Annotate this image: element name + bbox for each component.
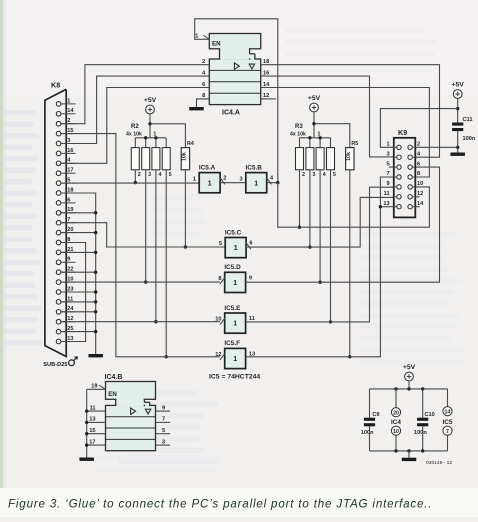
- svg-text:12: 12: [417, 191, 423, 197]
- svg-text:11: 11: [384, 191, 390, 197]
- svg-text:9: 9: [386, 181, 389, 187]
- wire K8 pin row 15 to ground bus: [61, 251, 96, 253]
- svg-text:1: 1: [233, 280, 237, 287]
- IC4.B output pin 3 stub: [156, 444, 171, 446]
- svg-text:5: 5: [162, 428, 165, 434]
- IC4.A pin 12 stub (n.c.): [261, 98, 276, 100]
- svg-text:13: 13: [383, 201, 389, 207]
- wire K9 pin 2 to +5V rail: [415, 146, 457, 148]
- IC4.B EN pin 19 grounded: [87, 388, 106, 390]
- wire K8.2 to IC4.A pin 2: [61, 65, 209, 124]
- K9 pin 12 stub: [415, 196, 420, 198]
- line C in: K8.7 jog to IC5.C input, R4 pullup: [61, 223, 225, 247]
- wire K8 pin row 13 to ground bus: [61, 232, 96, 234]
- resistor network R2 4x 10k: [126, 124, 172, 178]
- svg-text:10: 10: [215, 317, 221, 323]
- wire IC4.A pin 16 to K9 pin 3: [261, 76, 394, 157]
- wire +5V to R5 top: [314, 124, 350, 148]
- wire K8 pin row 21 to ground bus: [61, 311, 96, 313]
- R3.4 pulls line D out: [319, 170, 321, 282]
- svg-text:R4: R4: [187, 141, 194, 147]
- svg-text:14: 14: [445, 409, 451, 415]
- svg-text:16: 16: [263, 70, 269, 76]
- svg-text:3: 3: [148, 172, 151, 178]
- svg-text:15: 15: [89, 428, 95, 434]
- svg-text:1: 1: [233, 356, 237, 363]
- svg-text:SUB-D25: SUB-D25: [43, 362, 67, 368]
- R3.3 pulls line C out: [309, 170, 311, 247]
- svg-text:14: 14: [417, 201, 424, 207]
- svg-text:9: 9: [162, 405, 165, 411]
- svg-text:3: 3: [386, 151, 389, 157]
- svg-text:18: 18: [263, 59, 269, 65]
- svg-text:3: 3: [162, 439, 165, 445]
- buffer IC5.D: [218, 264, 252, 292]
- svg-text:7: 7: [162, 417, 165, 423]
- svg-text:5: 5: [333, 172, 336, 178]
- svg-text:K8: K8: [51, 81, 60, 90]
- svg-text:7: 7: [386, 171, 389, 177]
- node +5V rail to K9.1 branch: [456, 107, 459, 110]
- line D in: K8.10 to IC5.D input, R2.3 pullup: [61, 281, 220, 283]
- svg-text:13: 13: [89, 417, 95, 423]
- IC4.B input ground rail: [86, 389, 88, 457]
- svg-text:IC5.D: IC5.D: [224, 264, 241, 271]
- wire K8 pin row 17 to ground bus: [61, 271, 96, 273]
- svg-text:11: 11: [249, 316, 255, 322]
- svg-text:6: 6: [249, 241, 252, 247]
- EN net: down from IC5.B.4 junction, R3.2 pullup, to K9 pin 10: [278, 183, 430, 228]
- wire IC5.A out to IC5.B in: [220, 182, 246, 184]
- K9 pin 5 stub: [389, 166, 394, 168]
- wire IC4.A pin 14 to K9 pin 8: [261, 88, 430, 178]
- svg-text:7: 7: [446, 429, 449, 435]
- svg-text:R2: R2: [131, 124, 139, 130]
- svg-text:1: 1: [193, 176, 196, 182]
- svg-text:C10: C10: [425, 412, 435, 418]
- svg-text:K9: K9: [398, 128, 407, 137]
- wire K8.4 to IC4.A pin 6: [61, 88, 209, 164]
- wire K8.3 to IC4.A pin 4: [61, 76, 209, 143]
- R5 pulls line F out: [349, 170, 351, 357]
- wire K8 pin row 11 to ground bus: [61, 212, 96, 214]
- connector K8 (SUB-D25 male, PC parallel port): [43, 81, 78, 369]
- svg-text:1: 1: [254, 180, 258, 187]
- buffer IC5.C: [219, 229, 253, 257]
- svg-text:2: 2: [202, 59, 205, 65]
- resistor network R3 4x 10k: [290, 124, 336, 178]
- ground at decoupling block: [402, 458, 417, 461]
- wire K8 pin row 23 to ground bus: [61, 331, 96, 333]
- ground at K8 bus: [88, 354, 103, 357]
- svg-text:17: 17: [67, 168, 73, 174]
- IC4.A pin 1 EN loop wire from IC5.B output: [195, 19, 278, 183]
- IC5.B output node to EN loop: [267, 182, 278, 184]
- svg-text:IC5.F: IC5.F: [224, 340, 240, 347]
- svg-text:1: 1: [233, 321, 237, 328]
- svg-text:1: 1: [234, 245, 238, 252]
- capacitor C9 100n: [361, 389, 380, 451]
- R3.5 pulls line E out: [330, 170, 332, 322]
- svg-text:5: 5: [219, 241, 222, 247]
- resistor R5 10k: [346, 141, 359, 170]
- svg-text:6: 6: [67, 197, 70, 203]
- svg-text:Figure 3. ‘Glue’ to connect th: Figure 3. ‘Glue’ to connect the PC’s par…: [8, 498, 432, 511]
- buffer IC5.E: [215, 305, 255, 333]
- wire K8 pin row 19 to ground bus: [61, 291, 96, 293]
- wire +5V to R4 top: [150, 124, 185, 148]
- svg-text:5: 5: [169, 172, 172, 178]
- svg-text:100n: 100n: [361, 430, 374, 436]
- line A: K8.5 to IC5.A input, R2.2 pullup: [61, 182, 199, 184]
- IC4.A pin 8 to ground: [197, 99, 210, 107]
- wire +5V to K9 pin 1: [380, 109, 457, 148]
- svg-text:10k: 10k: [346, 152, 352, 161]
- R2.4 pulls line E: [155, 170, 157, 322]
- svg-text:11: 11: [90, 405, 96, 411]
- resistor R4 10k: [181, 141, 194, 170]
- svg-text:+5V: +5V: [452, 82, 465, 89]
- IC5 power pins 14 and 7: [443, 389, 453, 451]
- svg-text:020148 - 12: 020148 - 12: [426, 460, 452, 466]
- svg-text:IC5.B: IC5.B: [246, 164, 263, 171]
- wire K8 pin row 20 to ground bus: [61, 301, 96, 303]
- svg-text:8: 8: [218, 276, 221, 282]
- buffer IC4.B (74HCT244 half, disabled): [105, 374, 156, 451]
- ground below C11: [450, 153, 465, 156]
- svg-text:4x 10k: 4x 10k: [126, 131, 142, 137]
- wire IC4.A pin 18 to K9 pin 4: [261, 65, 440, 158]
- svg-text:+5V: +5V: [308, 95, 321, 102]
- svg-text:16: 16: [67, 148, 73, 154]
- svg-text:8: 8: [202, 93, 205, 99]
- svg-text:IC5.A: IC5.A: [199, 164, 216, 171]
- buffer IC5.B: [239, 164, 274, 192]
- svg-text:14: 14: [67, 108, 74, 114]
- R4 pulls line C: [184, 170, 186, 247]
- node: +5V / R3 / R5 junction: [312, 122, 315, 125]
- buffer IC5.A: [193, 164, 227, 192]
- R2.2 pulls line A: [134, 170, 136, 183]
- connector K9 (JTAG 14-pin header): [383, 128, 424, 217]
- svg-text:6: 6: [202, 82, 205, 88]
- svg-text:IC5.C: IC5.C: [225, 229, 242, 236]
- capacitor C11 100n: [452, 117, 476, 142]
- line D out: IC5.D.9 to K9 pin 6, R3.4 pullup: [246, 167, 440, 282]
- node C11 / K9.2: [456, 146, 459, 149]
- svg-text:9: 9: [67, 257, 70, 263]
- IC4.B input pin 11: [87, 410, 106, 412]
- svg-text:4x 10k: 4x 10k: [290, 131, 306, 137]
- svg-text:+5V: +5V: [144, 97, 157, 104]
- svg-text:IC5.E: IC5.E: [224, 305, 241, 312]
- K9 pin 13 taps F net: [380, 206, 393, 208]
- svg-text:R5: R5: [351, 141, 358, 147]
- svg-text:2: 2: [223, 176, 226, 182]
- svg-text:C11: C11: [463, 117, 473, 123]
- IC4 power pins 20 and 10: [391, 389, 401, 451]
- R2.3 pulls line D: [145, 170, 147, 282]
- svg-text:10: 10: [393, 429, 399, 435]
- svg-text:1: 1: [195, 33, 198, 39]
- svg-text:IC5 = 74HCT244: IC5 = 74HCT244: [209, 374, 260, 381]
- line E out: IC5.E.11 to K9 pin 9, R3.5 pullup: [246, 187, 394, 322]
- IC4.B input pin 17: [87, 444, 106, 446]
- R2.5 pulls line F: [165, 170, 167, 357]
- IC4.B input pin 13: [87, 421, 106, 423]
- line F in: K8.15 stair down to IC5.F input, R2.5 pullup: [61, 134, 220, 357]
- svg-text:6: 6: [417, 161, 420, 167]
- svg-text:10k: 10k: [181, 152, 187, 161]
- svg-text:14: 14: [263, 82, 270, 88]
- line C out: IC5.C.6 to K9 pin 11, R3.3 pullup: [246, 197, 394, 247]
- svg-text:8: 8: [417, 171, 420, 177]
- capacitor C10 100n: [414, 389, 435, 451]
- svg-text:IC4.A: IC4.A: [222, 110, 240, 117]
- svg-text:4: 4: [323, 172, 326, 178]
- svg-text:2: 2: [417, 142, 420, 148]
- svg-text:17: 17: [89, 439, 95, 445]
- loopback: K8.8 tied to K8.13: [61, 243, 86, 342]
- IC4.B input pin 15: [87, 433, 106, 435]
- svg-text:+5V: +5V: [403, 364, 416, 371]
- page left edge strip: [0, 0, 3, 517]
- K9 pin 14 stub: [415, 206, 420, 208]
- R3.2 pulls EN line: [299, 170, 301, 227]
- svg-text:IC4.B: IC4.B: [105, 374, 123, 381]
- svg-text:EN: EN: [212, 40, 221, 47]
- svg-text:3: 3: [313, 172, 316, 178]
- svg-text:2: 2: [302, 172, 305, 178]
- line E in: K8.12 to IC5.E input, R2.4 pullup: [61, 321, 220, 323]
- svg-text:C9: C9: [372, 412, 379, 418]
- svg-text:IC5: IC5: [443, 419, 453, 426]
- buffer IC4.A (74HCT244 half): [209, 34, 260, 117]
- svg-text:20: 20: [393, 410, 399, 416]
- top supply rail: [370, 388, 448, 390]
- svg-text:5: 5: [386, 161, 389, 167]
- svg-text:100n: 100n: [414, 430, 427, 436]
- svg-text:19: 19: [91, 383, 97, 389]
- svg-text:2: 2: [138, 172, 141, 178]
- svg-text:9: 9: [249, 275, 252, 281]
- IC4.B output pin 7 stub: [156, 421, 171, 423]
- svg-text:12: 12: [263, 93, 269, 99]
- buffer IC5.F: [215, 340, 255, 368]
- svg-text:3: 3: [239, 176, 242, 182]
- svg-text:1: 1: [208, 180, 212, 187]
- IC4.B output pin 9 stub: [156, 410, 171, 412]
- svg-text:EN: EN: [108, 391, 117, 398]
- IC4.B output pin 5 stub: [156, 433, 171, 435]
- line F out: IC5.F.13 to K9 pins 7 and 13, R5 pullup: [246, 177, 394, 357]
- svg-text:12: 12: [215, 352, 221, 358]
- ground at IC4.B: [79, 458, 94, 461]
- svg-text:4: 4: [159, 172, 162, 178]
- svg-text:1: 1: [67, 98, 70, 104]
- ground at IC4.A pin 8: [189, 107, 204, 110]
- svg-text:10: 10: [417, 181, 423, 187]
- K8 ground bus: pins 18-25 and 11 to ground: [61, 193, 96, 354]
- bottom rail to ground: [370, 450, 448, 452]
- svg-text:1: 1: [386, 142, 389, 148]
- svg-text:IC4: IC4: [391, 419, 401, 426]
- svg-text:100n: 100n: [463, 136, 476, 142]
- svg-text:R3: R3: [295, 124, 303, 130]
- node: +5V / R2 / R4 junction: [148, 122, 151, 125]
